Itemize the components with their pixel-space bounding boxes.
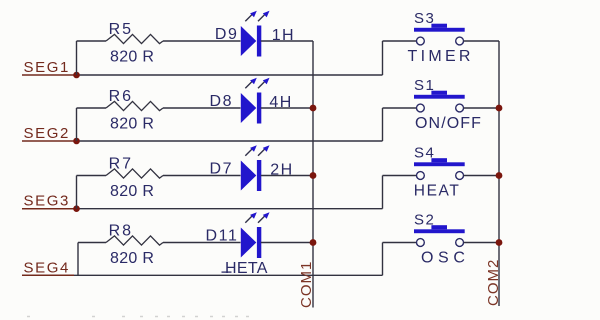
wire to switch S4 left terminal (383, 175, 417, 177)
wire SEG3 horizontal run to switch riser (74, 208, 383, 210)
LED D11 cathode bar (257, 227, 261, 258)
wire switch S3 right to COM2 bus (464, 40, 500, 42)
svg-text:SEG4: SEG4 (24, 259, 70, 276)
junction COM2 row (496, 239, 503, 246)
LED D7 emission arrow 2 (258, 149, 265, 156)
wire LED to COM1 bus (261, 107, 313, 109)
faint cropped caption marks at bottom (27, 316, 249, 318)
svg-text:R6: R6 (109, 88, 133, 105)
switch S1 left terminal (417, 104, 425, 112)
junction SEG1 (73, 72, 80, 79)
svg-text:R5: R5 (109, 21, 133, 38)
wire LED to COM1 bus (261, 40, 313, 42)
LED D11 emission arrow 1 (245, 216, 252, 223)
svg-text:OSC: OSC (421, 249, 469, 266)
resistor R5 zigzag (106, 34, 163, 43)
LED D9 emission arrow 2 (258, 14, 265, 21)
LED D8 emission arrow 2 (258, 81, 265, 88)
svg-text:D11: D11 (206, 228, 239, 245)
svg-text:D9: D9 (215, 26, 239, 43)
wire to switch S3 left terminal (383, 40, 417, 42)
wire LED row left segment (77, 40, 107, 42)
switch S3 bar (414, 28, 465, 32)
svg-text:820 R: 820 R (110, 183, 154, 200)
wire COM1 bus (312, 41, 314, 308)
svg-text:ON/OFF: ON/OFF (415, 115, 482, 132)
resistor R8 zigzag (106, 236, 163, 245)
switch S4 right terminal (456, 172, 464, 180)
junction COM1 row (310, 105, 317, 112)
LED D9 anode triangle (241, 26, 256, 56)
switch S4 left terminal (417, 172, 425, 180)
svg-text:SEG2: SEG2 (24, 125, 70, 142)
wire riser to switch S4 left (382, 176, 384, 209)
wire resistor to LED (163, 107, 241, 109)
switch S4 actuator (431, 158, 447, 162)
wire SEG4 horizontal run to switch riser (74, 274, 383, 276)
switch S1 actuator (431, 91, 447, 95)
resistor R6 zigzag (106, 101, 163, 110)
wire SEG1 horizontal run to switch riser (74, 74, 383, 76)
switch S3 right terminal (456, 37, 464, 45)
wire switch S1 right to COM2 bus (464, 107, 500, 109)
LED D8 anode triangle (241, 93, 256, 123)
LED D8 cathode bar (257, 93, 261, 124)
svg-text:D7: D7 (210, 161, 234, 178)
wire to switch S1 left terminal (383, 107, 417, 109)
wire switch S2 right to COM2 bus (464, 242, 500, 244)
switch S2 left terminal (417, 239, 425, 247)
LED D9 cathode bar (257, 26, 261, 57)
LED D11 emission arrow 2 (258, 216, 265, 223)
svg-text:R7: R7 (109, 156, 133, 173)
wire LED row left segment (78, 242, 106, 244)
LED D8 emission arrow 1 (245, 81, 252, 88)
svg-text:820 R: 820 R (110, 250, 154, 267)
svg-text:HEAT: HEAT (414, 182, 461, 199)
wire SEG4 underline segment (22, 274, 74, 276)
LED D7 emission arrow 1 (245, 149, 252, 156)
wire LED row left segment (77, 107, 107, 109)
wire LED to COM1 bus (261, 242, 313, 244)
wire riser to switch S3 left (382, 41, 384, 75)
switch S2 actuator (431, 225, 447, 229)
wire SEG1 underline segment (22, 74, 74, 76)
svg-text:COM1: COM1 (298, 261, 315, 308)
wire riser from SEG1 up to LED row (76, 41, 78, 75)
LED D7 anode triangle (241, 161, 256, 191)
switch S1 bar (414, 95, 465, 99)
svg-text:HETA: HETA (225, 260, 268, 277)
wire resistor to LED (163, 242, 241, 244)
wire resistor to LED (163, 175, 241, 177)
wire riser from SEG4 up to LED row (77, 243, 79, 276)
svg-text:SEG1: SEG1 (24, 59, 70, 76)
junction SEG2 (73, 138, 80, 145)
junction COM1 row (310, 239, 317, 246)
switch S1 right terminal (456, 104, 464, 112)
switch S4 bar (414, 162, 465, 166)
wire riser to switch S2 left (382, 243, 384, 276)
wire LED to COM1 bus (261, 175, 313, 177)
wire SEG3 underline segment (22, 208, 74, 210)
LED D9 emission arrow 1 (245, 14, 252, 21)
svg-text:SEG3: SEG3 (24, 193, 70, 210)
wire to switch S2 left terminal (383, 242, 417, 244)
junction COM1 row (310, 172, 317, 179)
switch S2 bar (414, 229, 465, 233)
wire COM2 bus (498, 41, 500, 306)
junction COM2 row (496, 172, 503, 179)
svg-text:820 R: 820 R (110, 49, 154, 66)
switch S2 right terminal (456, 239, 464, 247)
wire SEG2 horizontal run to switch riser (74, 140, 383, 142)
svg-text:D8: D8 (210, 93, 234, 110)
wire SEG2 underline segment (22, 140, 74, 142)
wire switch S4 right to COM2 bus (464, 175, 500, 177)
svg-text:TIMER: TIMER (408, 48, 474, 65)
resistor R7 zigzag (106, 169, 163, 178)
switch S3 actuator (431, 24, 447, 28)
wire LED row left segment (77, 175, 107, 177)
svg-text:820 R: 820 R (110, 116, 154, 133)
svg-text:R8: R8 (109, 223, 133, 240)
switch S3 left terminal (417, 37, 425, 45)
svg-text:COM2: COM2 (485, 259, 502, 306)
junction COM2 row (496, 105, 503, 112)
wire riser from SEG3 up to LED row (76, 176, 78, 209)
wire resistor to LED (163, 40, 241, 42)
LED D7 cathode bar (257, 160, 261, 191)
wire riser to switch S1 left (382, 108, 384, 141)
wire riser from SEG2 up to LED row (76, 108, 78, 141)
junction SEG3 (73, 205, 80, 212)
LED D11 anode triangle (241, 228, 256, 258)
